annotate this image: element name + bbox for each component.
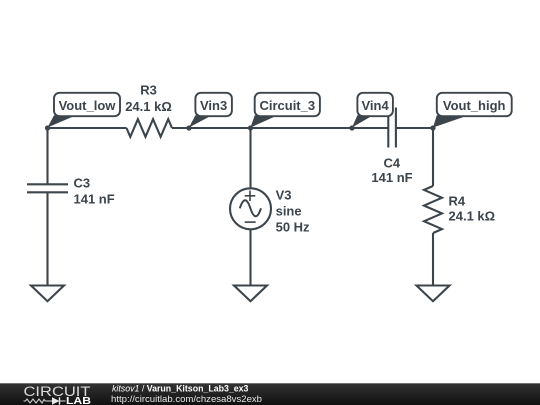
svg-text:24.1 kΩ: 24.1 kΩ (125, 99, 172, 114)
node label Vin3 (189, 93, 232, 128)
ground (middle) (234, 286, 267, 302)
ground (right) (417, 286, 450, 302)
wire: Circuit_3 node down to V3 top terminal (249, 128, 251, 188)
svg-text:Vout_high: Vout_high (443, 98, 506, 113)
footer bar (0, 383, 540, 405)
svg-text:sine: sine (276, 204, 302, 219)
node label Circuit_3 (251, 93, 320, 128)
resistor R4 (424, 186, 442, 233)
wire: Vout_high node down to R4 top terminal (432, 128, 434, 186)
node (junction) Vout_high (430, 125, 435, 130)
node (junction) Vout_low (45, 125, 50, 130)
svg-text:Vin3: Vin3 (200, 98, 227, 113)
svg-text:24.1 kΩ: 24.1 kΩ (449, 209, 496, 224)
node label Vout_high (433, 93, 512, 128)
CircuitLab logo diode (47, 397, 66, 404)
svg-text:Vout_low: Vout_low (59, 98, 117, 113)
wire: R4 bottom terminal down to right ground (432, 233, 434, 286)
svg-text:C3: C3 (74, 176, 91, 191)
svg-text:V3: V3 (276, 188, 292, 203)
node label Vout_low (48, 93, 121, 128)
svg-text:141 nF: 141 nF (74, 191, 115, 206)
wire: C3 bottom plate down to left ground (46, 192, 48, 285)
svg-text:50 Hz: 50 Hz (276, 220, 310, 235)
capacitor C4 (388, 108, 396, 148)
ground (left) (31, 286, 64, 302)
wire: R3 right terminal to C4 left plate (through Vin3, Circuit_3, Vin4 nodes) (172, 127, 388, 129)
svg-text:Vin4: Vin4 (361, 98, 389, 113)
svg-text:kitsov1 / Varun_Kitson_Lab3_ex: kitsov1 / Varun_Kitson_Lab3_ex3 (112, 384, 249, 394)
wire: Vout_low node down to C3 top plate (46, 128, 48, 184)
svg-text:LAB: LAB (66, 395, 91, 405)
resistor R3 (127, 119, 173, 137)
svg-text:C4: C4 (383, 156, 400, 171)
capacitor C3 (27, 184, 68, 192)
svg-text:R4: R4 (449, 194, 466, 209)
svg-text:R3: R3 (140, 83, 157, 98)
wire: Vout_low node to R3 left terminal (48, 127, 127, 129)
CircuitLab logo resistor squiggle (24, 399, 47, 403)
svg-text:Circuit_3: Circuit_3 (259, 98, 315, 113)
wire: C4 right plate to Vout_high node (396, 127, 433, 129)
node (junction) Vin4 (349, 125, 354, 130)
svg-text:141 nF: 141 nF (371, 170, 412, 185)
node (junction) Vin3 (186, 125, 191, 130)
node (junction) Circuit_3 (248, 125, 253, 130)
voltage source V3 (230, 188, 271, 229)
node label Vin4 (352, 93, 393, 128)
wire: V3 bottom terminal down to middle ground (249, 229, 251, 285)
svg-text:http://circuitlab.com/chzesa8v: http://circuitlab.com/chzesa8vs2exb (111, 394, 262, 404)
